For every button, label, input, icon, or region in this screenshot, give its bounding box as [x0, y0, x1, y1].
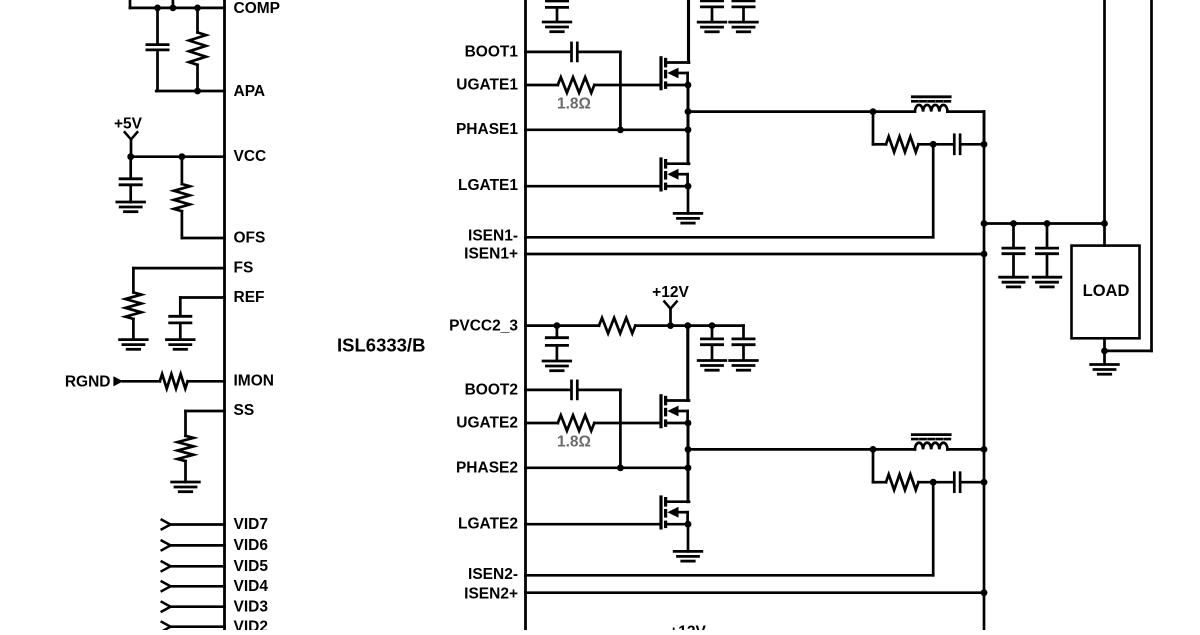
capacitor C-PVCC1 (cut off at top) [546, 1, 567, 21]
wire ISEN2+ pin [526, 591, 985, 594]
pin label FS [234, 260, 254, 277]
wire RGND to resistor [123, 380, 160, 383]
resistor R-UGATE2 1.8ohm [558, 415, 595, 431]
svg-text:APA: APA [234, 83, 266, 100]
wire VID7 pin [171, 523, 225, 526]
wire output rail vertical [983, 112, 986, 630]
svg-text:VID3: VID3 [234, 598, 269, 615]
ground below Q2 source [674, 186, 702, 223]
wire ISEN2- pin [526, 482, 934, 575]
ground below C-OUT1 [1000, 277, 1028, 287]
svg-text:ISEN1+: ISEN1+ [464, 246, 518, 263]
wire VID2 pin [171, 625, 225, 628]
wire Q1 drain to +12V rail (cut off at top) [687, 0, 690, 63]
wire VID6 pin [171, 544, 225, 547]
pin label APA [234, 83, 266, 100]
ground below C-PVCC2_3 [543, 361, 571, 371]
ground below R-FS [120, 319, 148, 349]
IC U1 ISL6333/B left edge [223, 0, 226, 630]
svg-text:SS: SS [234, 402, 255, 419]
wire R-ISEN2 to node [919, 481, 934, 484]
svg-text:1.8Ω: 1.8Ω [557, 434, 591, 451]
svg-text:ISEN2-: ISEN2- [468, 566, 518, 583]
capacitor C-12Va below PVCC wire [701, 326, 722, 360]
ground below C-REF [167, 324, 195, 349]
svg-text:PHASE1: PHASE1 [456, 121, 518, 138]
svg-text:VID2: VID2 [234, 618, 268, 630]
value label 1.8&#937; (R-UGATE1) [557, 96, 591, 113]
capacitor C-12V-bypass at x=712 (cut off at top) [701, 1, 722, 21]
node L2 output junction [981, 446, 988, 453]
svg-text:RGND: RGND [65, 374, 111, 391]
node C-12Va junction [709, 322, 716, 329]
pin label PHASE1 [456, 121, 518, 138]
arrow VID6 input [162, 541, 171, 551]
wire PHASE1 pin [526, 128, 689, 131]
arrow VID7 input [162, 520, 171, 530]
pin label COMP [234, 0, 281, 17]
arrow VID4 input [162, 582, 171, 592]
wire OFS pin [182, 237, 225, 240]
wire C-BOOT2 to phase [579, 390, 621, 468]
capacitor C-BOOT2 [572, 381, 578, 399]
capacitor C-12V-bypass at x=743.5 (cut off at top) [733, 1, 754, 21]
capacitor C-BOOT1 [572, 43, 578, 61]
svg-text:UGATE1: UGATE1 [456, 76, 518, 93]
wire up mid COMP (cut off) [172, 0, 175, 8]
node output rail to VOUT wire [981, 220, 988, 227]
node phase1 junction at Q1 source column [685, 108, 692, 115]
wire ISEN1- pin [526, 144, 934, 237]
resistor R-OFS (VCC to OFS) [174, 157, 190, 238]
node PVCC to Q3 drain [684, 322, 691, 329]
svg-text:ISEN1-: ISEN1- [468, 228, 518, 245]
wire sense1 tap down [873, 112, 886, 145]
wire COMP pin [130, 7, 225, 10]
wire BOOT2 pin to cap [526, 389, 571, 392]
wire FS pin [133, 268, 224, 292]
node LOAD ground junction [1101, 348, 1108, 355]
svg-text:LOAD: LOAD [1083, 282, 1130, 300]
pin label BOOT1 [465, 43, 519, 60]
ground below C-12V-bypass at x=712 [698, 22, 726, 32]
node VCC-cap junction [127, 153, 134, 160]
pin label ISEN2+ [464, 586, 518, 603]
pin label VID7 [234, 516, 268, 533]
svg-text:1.8Ω: 1.8Ω [557, 96, 591, 113]
wire VOUT sense rail from top (cut off) [1103, 0, 1106, 246]
node +12V junction [667, 322, 674, 329]
inductor L2 phase2 [912, 435, 950, 450]
pin label PHASE2 [456, 459, 518, 476]
wire LGATE2 pin to Q4 gate [526, 523, 662, 526]
svg-text:REF: REF [234, 289, 265, 306]
pin label BOOT2 [465, 381, 518, 398]
wire R-ISEN1 to node [919, 143, 934, 146]
node COMP-res junction [194, 5, 201, 12]
load box label LOAD [1083, 282, 1130, 300]
transistor Q1 upper MOSFET phase1 [661, 58, 691, 89]
svg-text:FS: FS [234, 260, 254, 277]
ground below C-12Va [698, 361, 726, 371]
node ISEN2+ to rail [981, 589, 988, 596]
pin label ISEN1- [468, 228, 518, 245]
resistor R-SS [178, 436, 194, 461]
node phase1 sense tap [870, 108, 877, 115]
node COMP-cap junction [154, 5, 161, 12]
arrow VID3 input [162, 602, 171, 612]
resistor R-ISEN1 [886, 137, 919, 153]
transistor Q2 lower MOSFET phase1 [661, 159, 691, 190]
wire UGATE2 pin to resistor [526, 422, 558, 425]
ground below C-12Vb [730, 361, 758, 371]
pin label LGATE2 [458, 516, 518, 533]
node phase2 sense tap [870, 446, 877, 453]
wire VID3 pin [171, 605, 225, 608]
wire BOOT1 pin to cap [526, 51, 571, 54]
wire R-UGATE2 to Q3 gate [594, 422, 661, 425]
svg-text:+12V: +12V [669, 624, 706, 631]
capacitor C-12Vb below PVCC wire [712, 326, 754, 360]
transistor Q4 lower MOSFET phase2 [661, 497, 691, 528]
capacitor C-OUT1 [1003, 224, 1024, 277]
power +12V arrow [664, 302, 676, 326]
ground below C-VCC [117, 186, 145, 212]
pin label VID6 [234, 537, 269, 554]
svg-text:COMP: COMP [234, 0, 281, 17]
ground below Q4 source [674, 524, 702, 561]
wire LOAD bottom to ground [1103, 338, 1106, 363]
node PVCC cap junction [554, 322, 561, 329]
wire phase2 column to Q4 drain [687, 468, 690, 502]
wire VOUT to load [984, 222, 1105, 225]
wire L1 to output rail [947, 112, 984, 145]
node ISEN2 RC junction [930, 479, 937, 486]
wire UGATE1 pin to resistor [526, 84, 558, 87]
value label 1.8&#937; (R-UGATE2) [557, 434, 591, 451]
power +12V label phase3 (cut off at bottom) [669, 624, 706, 635]
arrow VID2 input [162, 622, 171, 632]
ground below C-OUT2 [1033, 277, 1061, 287]
power +12V label [652, 284, 689, 301]
pin label ISEN1+ [464, 246, 518, 263]
pin label IMON [234, 373, 274, 390]
svg-text:VCC: VCC [234, 148, 267, 165]
capacitor C-ISEN1 [954, 135, 960, 154]
load box [1072, 246, 1140, 339]
wire PHASE2 pin [526, 466, 689, 469]
power +5V label [114, 115, 143, 132]
wire sense2 tap down [873, 449, 886, 482]
wire APA pin [156, 90, 224, 93]
svg-text:BOOT2: BOOT2 [465, 381, 518, 398]
IC U1 ISL6333/B right edge [524, 0, 527, 630]
resistor R-ISEN2 [886, 474, 919, 490]
pin label VID4 [234, 578, 269, 595]
wire ISEN1+ pin [526, 253, 985, 256]
svg-text:VID4: VID4 [234, 578, 269, 595]
node PHASE1 pin junction [685, 126, 692, 133]
capacitor C-OUT2 [1036, 224, 1057, 277]
resistor R-COMP (COMP to APA) [189, 8, 206, 91]
arrow VID5 input [162, 562, 171, 572]
wire C-ISEN2 to output rail [961, 481, 984, 484]
wire REF pin [180, 298, 224, 316]
capacitor C-COMP (COMP to APA) [147, 8, 168, 91]
capacitor C-ISEN2 [954, 473, 960, 492]
wire phase2 node to inductor [688, 448, 915, 451]
resistor R-IMON [160, 374, 188, 389]
node APA-res junction [194, 88, 201, 95]
pin label LGATE1 [458, 177, 518, 194]
pin label PVCC2_3 [449, 318, 518, 335]
pin label VID5 [234, 558, 269, 575]
pin label VCC [234, 148, 267, 165]
svg-text:BOOT1: BOOT1 [465, 43, 519, 60]
wire Q1 source down to phase node [687, 85, 690, 130]
svg-text:+5V: +5V [114, 115, 143, 132]
wire VID5 pin [171, 565, 225, 568]
svg-text:LGATE2: LGATE2 [458, 516, 518, 533]
capacitor C-VCC decoupling [120, 157, 141, 185]
wire Q3 source down to phase node [687, 423, 690, 468]
inductor L1 phase1 [912, 97, 950, 112]
node VOUT at load [1101, 220, 1108, 227]
node C-OUT1 junction [1010, 220, 1017, 227]
svg-text:VID6: VID6 [234, 537, 269, 554]
transistor Q3 upper MOSFET phase2 [661, 396, 691, 427]
wire L2 to output rail [947, 448, 984, 451]
node BOOT1-PHASE1 junction [617, 126, 624, 133]
node ISEN1 RC junction [930, 141, 937, 148]
pin label VID2 [234, 618, 268, 635]
ground below C-12V-bypass at x=743.5 [730, 22, 758, 32]
wire LGATE1 pin to Q2 gate [526, 185, 662, 188]
wire Q3 drain to +12V node [686, 326, 689, 401]
pin label REF [234, 289, 265, 306]
wire up from COMP wire left end (cut off) [129, 0, 132, 8]
svg-text:UGATE2: UGATE2 [456, 414, 518, 431]
resistor R-FS [125, 292, 141, 319]
arrow RGND input [113, 376, 123, 386]
pin label SS [234, 402, 255, 419]
svg-text:ISEN2+: ISEN2+ [464, 586, 518, 603]
ground below LOAD [1091, 365, 1119, 375]
wire C-BOOT1 to phase [579, 52, 621, 130]
wire phase1 node to inductor [688, 110, 915, 113]
node PHASE2 pin junction [685, 464, 692, 471]
node phase2 junction at Q3 source column [685, 446, 692, 453]
IC U1 part label ISL6333/B [337, 334, 425, 355]
wire node to C-ISEN2 [933, 481, 953, 484]
svg-text:ISL6333/B: ISL6333/B [337, 334, 425, 355]
wire R-UGATE1 to Q1 gate [594, 84, 661, 87]
wire SS pin [186, 411, 225, 436]
capacitor C-PVCC2_3 [546, 326, 567, 360]
svg-text:VID5: VID5 [234, 558, 269, 575]
ground below R-SS [172, 461, 200, 492]
node ISEN1+ to rail [981, 251, 988, 258]
pin label UGATE1 [456, 76, 518, 93]
pin label VID3 [234, 598, 269, 615]
svg-text:VID7: VID7 [234, 516, 268, 533]
capacitor C-REF [170, 316, 191, 323]
node ISEN2 cap to rail [981, 479, 988, 486]
net label RGND [65, 374, 111, 391]
wire node to C-ISEN1 [933, 143, 953, 146]
svg-text:OFS: OFS [234, 230, 266, 247]
resistor R-UGATE1 1.8ohm [558, 77, 595, 93]
resistor R-PVCC [599, 318, 635, 334]
wire R-PVCC to +12V node [635, 324, 712, 327]
pin label UGATE2 [456, 414, 518, 431]
node COMP-mid junction [170, 5, 177, 12]
svg-text:PHASE2: PHASE2 [456, 459, 518, 476]
wire PVCC2_3 pin [526, 324, 600, 327]
wire VID4 pin [171, 585, 225, 588]
ground below C-PVCC1 [543, 22, 571, 32]
power +5V arrow [125, 132, 138, 157]
wire phase1 column to Q2 drain [687, 130, 690, 164]
svg-text:+12V: +12V [652, 284, 689, 301]
wire resistor to IMON pin [188, 380, 225, 383]
svg-text:IMON: IMON [234, 373, 274, 390]
node C-OUT2 junction [1044, 220, 1051, 227]
wire ground-sense rail from top (cut off) [1105, 0, 1152, 351]
node ISEN1 cap to rail [981, 141, 988, 148]
wire C-ISEN1 to output rail [961, 143, 984, 146]
svg-text:PVCC2_3: PVCC2_3 [449, 318, 518, 335]
pin label ISEN2- [468, 566, 518, 583]
pin label OFS [234, 230, 266, 247]
svg-text:LGATE1: LGATE1 [458, 177, 518, 194]
wire VCC pin [131, 155, 225, 158]
node VCC-res junction [179, 153, 186, 160]
node BOOT2-PHASE2 junction [617, 464, 624, 471]
